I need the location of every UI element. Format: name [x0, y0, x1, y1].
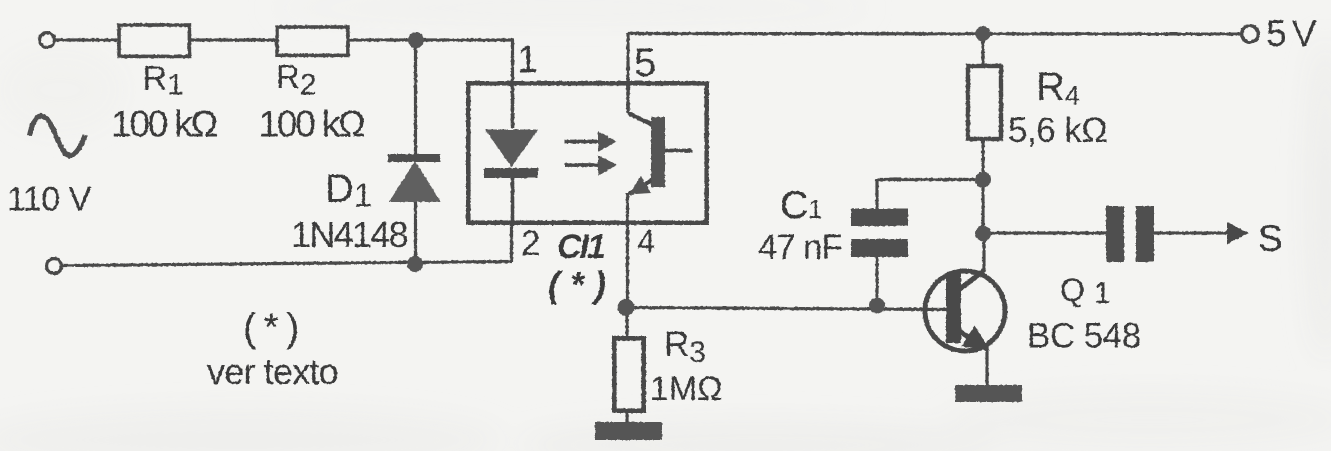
svg-text:100 kΩ: 100 kΩ	[111, 104, 218, 145]
svg-text:1N4148: 1N4148	[291, 214, 408, 255]
svg-text:110 V: 110 V	[7, 181, 92, 219]
svg-text:CI1: CI1	[557, 228, 605, 266]
svg-text:5,6 kΩ: 5,6 kΩ	[1008, 111, 1107, 150]
svg-text:1: 1	[517, 39, 538, 81]
svg-text:1MΩ: 1MΩ	[650, 370, 723, 408]
svg-text:100 kΩ: 100 kΩ	[259, 104, 366, 145]
svg-text:( * ): ( * )	[243, 306, 297, 350]
svg-text:5: 5	[634, 41, 656, 85]
svg-text:47 nF: 47 nF	[758, 228, 842, 267]
svg-text:4: 4	[637, 223, 655, 260]
svg-text:2: 2	[521, 224, 540, 263]
svg-text:BC 548: BC 548	[1027, 317, 1141, 356]
svg-text:( * ): ( * )	[548, 264, 606, 305]
svg-text:S: S	[1258, 218, 1283, 259]
svg-text:ver texto: ver texto	[207, 351, 338, 392]
svg-text:5 V: 5 V	[1266, 13, 1317, 54]
